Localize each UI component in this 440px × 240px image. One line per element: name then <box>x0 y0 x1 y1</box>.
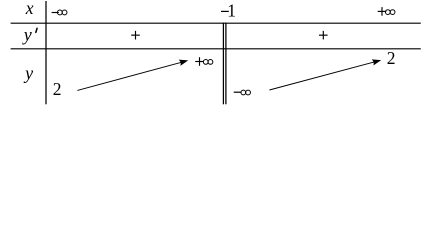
svg-text:y: y <box>22 24 32 44</box>
svg-text:1: 1 <box>227 1 236 21</box>
svg-text:y: y <box>23 63 33 83</box>
svg-text:2: 2 <box>53 79 62 99</box>
svg-text:x: x <box>25 0 34 18</box>
svg-text:2: 2 <box>387 48 396 68</box>
